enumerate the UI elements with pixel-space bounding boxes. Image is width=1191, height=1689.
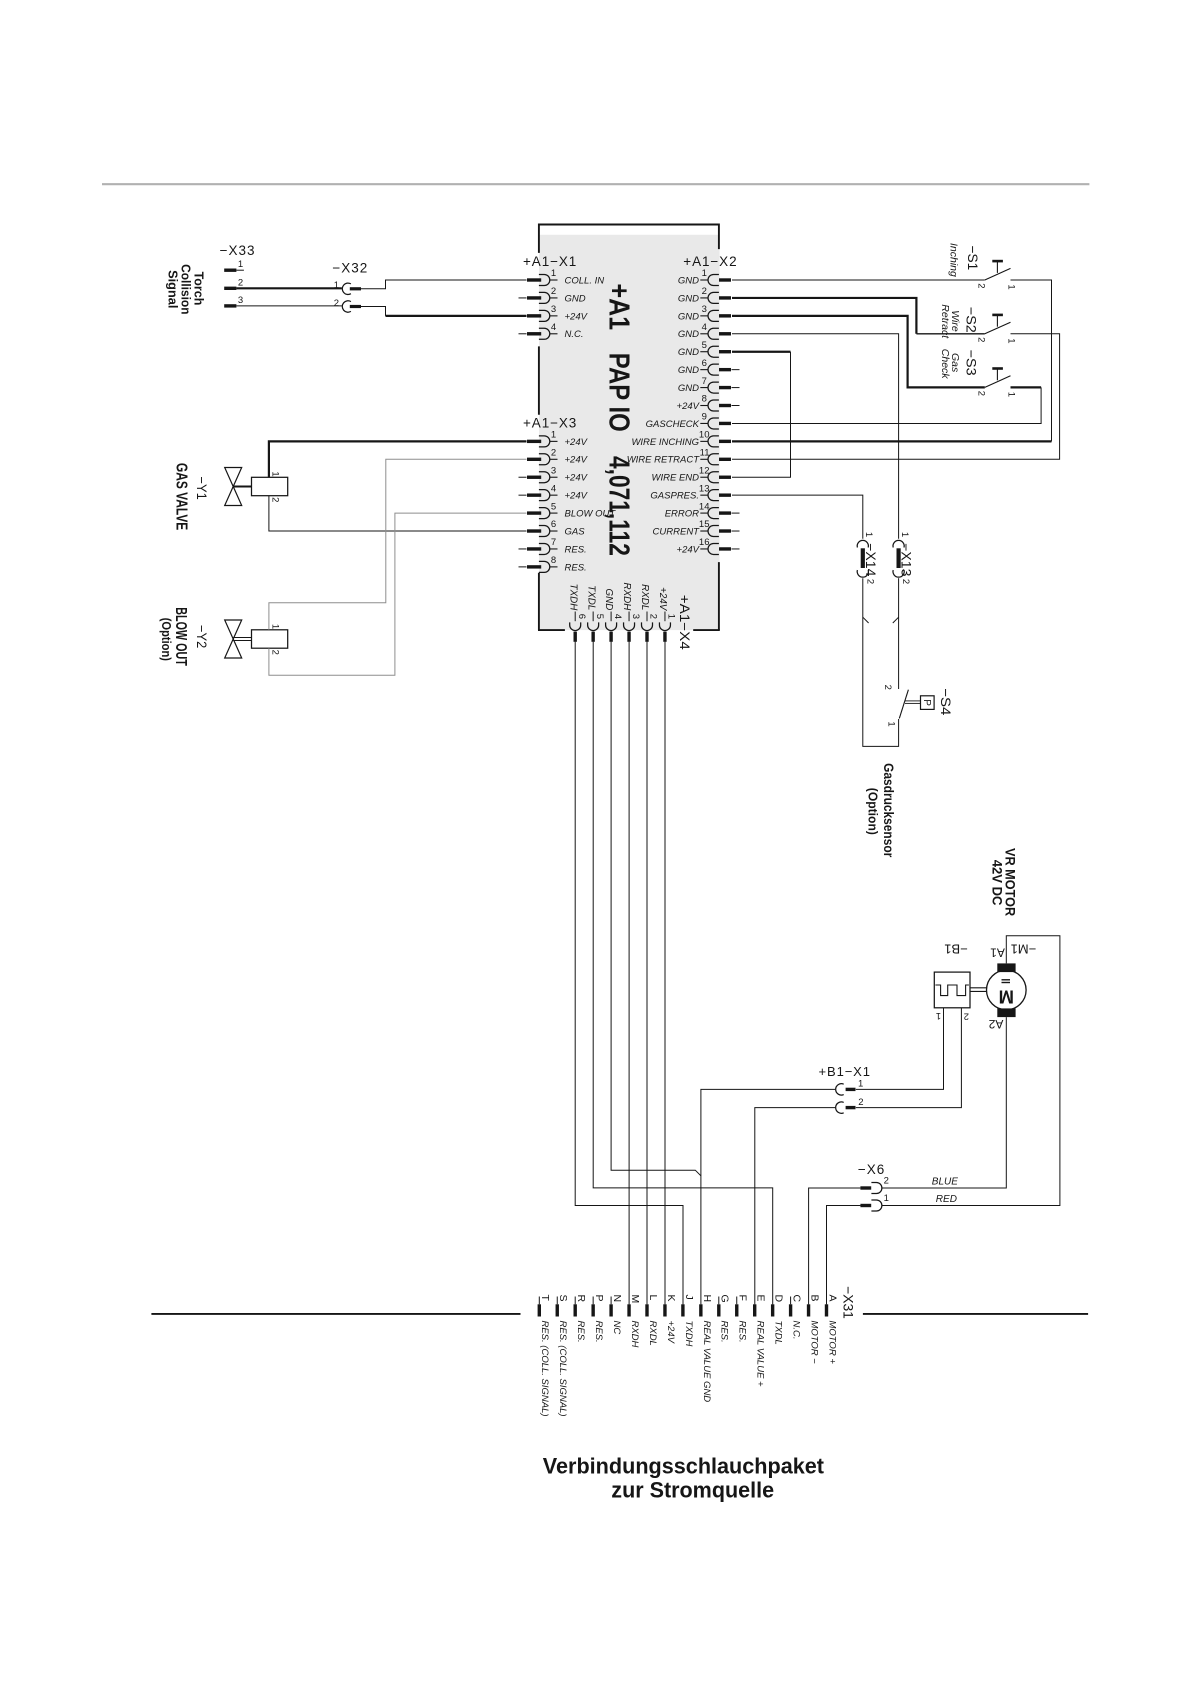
svg-text:NC: NC — [611, 1321, 622, 1335]
svg-text:2: 2 — [900, 579, 911, 584]
svg-text:N: N — [611, 1295, 623, 1303]
wire B1-2 down — [856, 1008, 962, 1108]
pin 16 (+24V) — [677, 537, 740, 555]
wire B1X1-2 to X31-E — [755, 1108, 835, 1305]
pin 5 (BLOW OUT) — [527, 501, 616, 519]
pin 3 (GND) — [678, 304, 731, 322]
pin 12 (WIRE END) — [652, 465, 732, 483]
top separator rule — [102, 183, 1089, 185]
PAP IO unit title "+A1 PAP IO 4,071,112" — [603, 284, 635, 556]
wire Y2-1 to X3-2 (gray) — [269, 459, 527, 630]
connector X31 pin C (N.C.) — [791, 1295, 803, 1340]
svg-text:F: F — [737, 1295, 749, 1301]
svg-text:2: 2 — [270, 650, 281, 655]
svg-text:GND: GND — [678, 293, 699, 304]
svg-text:3: 3 — [551, 465, 556, 476]
svg-text:M: M — [999, 987, 1014, 1008]
svg-text:A: A — [826, 1295, 838, 1302]
svg-text:RES.: RES. — [565, 544, 587, 555]
svg-text:2: 2 — [551, 286, 556, 297]
svg-text:GASPRES.: GASPRES. — [650, 491, 699, 502]
svg-text:+24V: +24V — [565, 491, 589, 502]
pin 2 (GND) — [519, 286, 586, 304]
svg-text:1: 1 — [899, 532, 910, 537]
pin 4 (GND) — [603, 589, 623, 642]
svg-text:6: 6 — [576, 614, 587, 619]
svg-text:R: R — [575, 1295, 587, 1303]
svg-text:GND: GND — [678, 329, 699, 340]
svg-text:−X31: −X31 — [841, 1286, 857, 1319]
switch S1 (Inching) — [975, 261, 1016, 290]
connector X31 pin P (RES.) — [593, 1295, 605, 1343]
svg-text:7: 7 — [702, 376, 707, 387]
svg-text:+A1−X2: +A1−X2 — [683, 254, 737, 269]
svg-text:3: 3 — [551, 304, 556, 315]
svg-text:MOTOR −: MOTOR − — [808, 1321, 819, 1365]
wire X4-1 +24V to X31-K — [664, 642, 666, 1305]
svg-text:Verbindungsschlauchpaket: Verbindungsschlauchpaket — [543, 1454, 825, 1479]
wire X6-2 to X31-B — [809, 1188, 861, 1304]
pin 1 — [224, 259, 244, 270]
svg-text:−X14: −X14 — [863, 543, 878, 577]
label "Gasdrucksensor (Option)" — [866, 763, 896, 858]
svg-text:2: 2 — [238, 277, 243, 288]
svg-text:BLOW OUT: BLOW OUT — [565, 508, 617, 519]
wire S3 to X2-9 (GASCHECK) — [1011, 386, 1042, 388]
svg-text:11: 11 — [700, 448, 710, 459]
svg-text:+24V: +24V — [565, 455, 589, 466]
svg-text:C: C — [791, 1295, 803, 1303]
svg-text:4: 4 — [551, 322, 556, 333]
motor M1 (VR motor) — [987, 963, 1027, 1017]
svg-text:GAS VALVE: GAS VALVE — [172, 463, 189, 530]
svg-text:Signal: Signal — [166, 270, 180, 308]
svg-text:1: 1 — [551, 430, 556, 441]
pin 3 — [224, 295, 243, 306]
svg-text:WIRE END: WIRE END — [652, 473, 700, 484]
svg-text:4: 4 — [612, 614, 623, 619]
svg-text:GND: GND — [678, 347, 699, 358]
connector -X32 pin 1 — [334, 280, 361, 295]
connector +A1-X2 — [627, 268, 740, 555]
svg-text:GND: GND — [678, 311, 699, 322]
wire Y1-1 to X3-1 — [269, 441, 527, 477]
svg-text:42V DC: 42V DC — [990, 860, 1006, 906]
wire X4-5 TXDL to X31-D — [593, 642, 773, 1305]
svg-text:−Y2: −Y2 — [194, 625, 209, 648]
pin 1 (COLL. IN) — [527, 268, 604, 286]
wire X4-3 RXDH to X31-M — [628, 642, 630, 1305]
pin 3 (+24V) — [519, 465, 589, 483]
tacho B1 — [934, 972, 986, 1008]
svg-text:6: 6 — [551, 519, 556, 530]
svg-text:+A1: +A1 — [603, 284, 635, 331]
svg-text:Gasdrucksensor: Gasdrucksensor — [881, 763, 896, 858]
svg-text:1: 1 — [1006, 392, 1017, 397]
connector +A1-X4 — [567, 583, 676, 642]
svg-text:GND: GND — [603, 589, 614, 611]
svg-text:RES.: RES. — [737, 1321, 748, 1343]
svg-text:A1: A1 — [990, 946, 1005, 960]
svg-text:GAS: GAS — [565, 526, 586, 537]
svg-text:ERROR: ERROR — [665, 508, 699, 519]
pin 2 (RXDL) — [639, 584, 659, 642]
svg-text:BLUE: BLUE — [932, 1176, 958, 1187]
svg-text:RED: RED — [936, 1194, 957, 1205]
svg-text:2: 2 — [964, 1011, 969, 1022]
svg-text:14: 14 — [699, 501, 710, 512]
wire X32-2 to X1-3 — [361, 307, 386, 316]
pin 10 (WIRE INCHING) — [631, 430, 731, 448]
pin 2 — [224, 277, 243, 288]
wire B1X1-1 to X31-H — [701, 1089, 835, 1304]
label "VR MOTOR 42V DC" — [990, 848, 1019, 916]
wire X13-2 down to S4 — [898, 578, 900, 689]
svg-text:8: 8 — [551, 555, 556, 566]
svg-text:3: 3 — [702, 304, 707, 315]
svg-text:1: 1 — [551, 268, 556, 279]
svg-text:+A1−X1: +A1−X1 — [523, 254, 577, 269]
svg-text:2: 2 — [270, 497, 281, 502]
wire X2-3 to S3 — [732, 316, 985, 388]
svg-text:Check: Check — [939, 349, 951, 380]
svg-text:1: 1 — [863, 532, 874, 537]
svg-text:N.C.: N.C. — [791, 1321, 802, 1340]
svg-text:2: 2 — [551, 448, 556, 459]
hose-package entry marks — [863, 617, 869, 623]
pin 5 (TXDL) — [585, 585, 605, 642]
svg-text:Inching: Inching — [947, 243, 959, 277]
svg-text:3: 3 — [238, 295, 243, 306]
wire X32-1 to X1-1 — [361, 280, 527, 289]
wire M1-A1 loop to X6-1 — [882, 936, 1060, 1206]
connector +B1-X1 pin 2 — [836, 1097, 864, 1114]
svg-text:GND: GND — [678, 383, 699, 394]
connector -X6 pin 2 — [860, 1175, 889, 1193]
connector -X6 pin 1 — [860, 1193, 889, 1211]
wire Y1-2 to X3-6 — [269, 496, 527, 531]
svg-text:Torch: Torch — [191, 272, 205, 306]
svg-text:WIRE INCHING: WIRE INCHING — [631, 437, 699, 448]
svg-text:A2: A2 — [988, 1017, 1003, 1031]
svg-text:RES. (COLL. SIGNAL): RES. (COLL. SIGNAL) — [557, 1321, 568, 1417]
pin 4 (N.C.) — [519, 322, 584, 340]
svg-text:+24V: +24V — [665, 1321, 676, 1345]
svg-text:−X6: −X6 — [858, 1162, 885, 1177]
svg-text:D: D — [773, 1295, 785, 1303]
label "BLOW OUT (Option)" — [159, 607, 189, 666]
pin 6 (GAS) — [527, 519, 585, 537]
pin 13 (GASPRES.) — [650, 483, 731, 501]
svg-text:+24V: +24V — [565, 437, 589, 448]
svg-text:TXDL: TXDL — [773, 1321, 784, 1345]
connector X31 pin S (RES. (COLL. SIGNAL)) — [557, 1295, 569, 1417]
switch S4 (pressure) — [882, 685, 934, 727]
valve Y1 (gas valve) — [225, 468, 288, 506]
svg-text:2: 2 — [702, 286, 707, 297]
switch S3 (Gas Check) — [975, 369, 1016, 398]
connector X31 pin T (RES. (COLL. SIGNAL)) — [539, 1295, 551, 1417]
svg-text:2: 2 — [858, 1097, 863, 1108]
wire Y2-2 to X3-5 (gray) — [269, 513, 527, 675]
pin 7 (RES.) — [519, 537, 587, 555]
pin 6 (TXDH) — [567, 584, 587, 642]
pin 5 (GND) — [678, 340, 731, 358]
svg-text:5: 5 — [551, 501, 556, 512]
svg-text:P: P — [593, 1295, 605, 1302]
connector X31 pin L (RXDL) — [647, 1295, 659, 1346]
svg-text:TXDH: TXDH — [567, 584, 578, 612]
svg-text:1: 1 — [884, 1193, 889, 1204]
svg-text:RXDL: RXDL — [639, 584, 650, 610]
svg-text:RES.: RES. — [565, 562, 587, 573]
svg-text:10: 10 — [699, 430, 710, 441]
wire X33-2 to X32-1 — [236, 287, 342, 289]
svg-text:−S2: −S2 — [963, 307, 979, 333]
svg-text:N.C.: N.C. — [565, 329, 584, 340]
svg-text:1: 1 — [1006, 338, 1017, 343]
svg-text:2: 2 — [864, 579, 875, 584]
svg-text:+24V: +24V — [677, 401, 701, 412]
svg-text:RXDL: RXDL — [647, 1321, 658, 1346]
wire M1-A2 to X6-2 — [882, 1017, 1006, 1188]
svg-text:REAL VALUE GND: REAL VALUE GND — [701, 1321, 712, 1403]
svg-text:B: B — [808, 1295, 820, 1302]
connector +A1-X3 — [519, 430, 617, 574]
valve Y2 (blow out) — [225, 620, 288, 658]
label "Torch Collision Signal" — [166, 264, 206, 314]
svg-text:T: T — [539, 1295, 551, 1302]
pin 8 (+24V) — [677, 394, 740, 412]
pin 4 (GND) — [678, 322, 731, 340]
connector X31 pin B (MOTOR −) — [808, 1295, 820, 1365]
svg-text:16: 16 — [699, 537, 710, 548]
svg-text:GND: GND — [678, 275, 699, 286]
svg-text:RES.: RES. — [719, 1321, 730, 1343]
svg-text:2: 2 — [334, 298, 339, 309]
label Gas Check — [939, 349, 961, 380]
svg-text:2: 2 — [884, 1175, 889, 1186]
svg-text:(Option): (Option) — [866, 788, 881, 835]
connector X31 pin F (RES.) — [737, 1295, 749, 1343]
connector +B1-X1 pin 1 — [836, 1079, 864, 1096]
svg-text:RES.: RES. — [575, 1321, 586, 1343]
svg-text:+24V: +24V — [677, 544, 701, 555]
pin 3 (+24V) — [527, 304, 589, 322]
svg-text:4: 4 — [702, 322, 707, 333]
svg-text:15: 15 — [699, 519, 710, 530]
wire S2 to X2-11 (WIRE RETRACT) — [732, 334, 1060, 460]
svg-text:−B1: −B1 — [944, 941, 968, 956]
connector X31 pin M (RXDH) — [629, 1295, 641, 1348]
connector -X32 pin 2 — [334, 298, 361, 312]
svg-text:5: 5 — [594, 614, 605, 619]
svg-text:−S1: −S1 — [965, 246, 981, 271]
svg-text:2: 2 — [648, 614, 659, 619]
svg-text:GND: GND — [678, 365, 699, 376]
svg-text:2: 2 — [882, 685, 893, 690]
pin 2 (+24V) — [527, 448, 589, 466]
svg-text:−X33: −X33 — [220, 243, 256, 258]
svg-text:+B1−X1: +B1−X1 — [819, 1064, 871, 1079]
boundary line (hose package, left) — [151, 1313, 520, 1315]
connector X31 pin G (RES.) — [719, 1295, 731, 1343]
svg-text:G: G — [719, 1295, 731, 1303]
svg-text:2: 2 — [975, 391, 986, 396]
svg-text:WIRE RETRACT: WIRE RETRACT — [627, 455, 701, 466]
pin 3 (RXDH) — [621, 583, 641, 642]
caption "Verbindungsschlauchpaket zur Stromquelle" — [543, 1454, 825, 1503]
svg-text:1: 1 — [885, 721, 896, 726]
svg-text:1: 1 — [936, 1010, 941, 1021]
svg-text:6: 6 — [702, 358, 707, 369]
boundary line (hose package, right) — [863, 1313, 1088, 1315]
wire X2-5 to X2-12 (GND to WIRE END jumper) — [732, 351, 791, 353]
svg-text:RES. (COLL. SIGNAL): RES. (COLL. SIGNAL) — [539, 1321, 550, 1417]
wire X33-3 to X32-2 — [236, 305, 342, 307]
pin 6 (GND) — [678, 358, 740, 376]
svg-text:+24V: +24V — [657, 587, 668, 612]
svg-text:4,071,112: 4,071,112 — [603, 456, 635, 556]
connector X31 pin K (+24V) — [665, 1295, 677, 1345]
pin 1 (+24V) — [657, 587, 677, 642]
svg-text:(Option): (Option) — [159, 618, 174, 661]
wire X2-13 to X14-1 — [732, 495, 863, 539]
svg-text:4: 4 — [551, 483, 556, 494]
connector X31 pin E (REAL VALUE +) — [755, 1295, 767, 1388]
svg-text:PAP IO: PAP IO — [603, 353, 635, 432]
svg-text:1: 1 — [270, 471, 281, 476]
svg-text:−M1: −M1 — [1011, 941, 1037, 956]
wire X2-1 to S1 — [732, 279, 985, 281]
svg-text:8: 8 — [702, 394, 707, 405]
svg-text:13: 13 — [699, 483, 710, 494]
pin 1 (+24V) — [527, 430, 589, 448]
svg-text:MOTOR +: MOTOR + — [826, 1321, 837, 1365]
svg-text:2: 2 — [975, 337, 986, 342]
svg-text:RXDH: RXDH — [629, 1321, 640, 1348]
connector -X33 — [224, 259, 244, 306]
connector X14 — [857, 532, 878, 584]
connector X31 pin N (NC) — [611, 1295, 623, 1335]
svg-text:1: 1 — [666, 614, 677, 619]
svg-text:zur Stromquelle: zur Stromquelle — [611, 1478, 774, 1503]
svg-text:1: 1 — [270, 624, 281, 629]
svg-text:M: M — [629, 1295, 641, 1304]
svg-text:1: 1 — [702, 268, 707, 279]
svg-text:P: P — [921, 699, 932, 706]
wire X2-4 to X13-1 — [732, 334, 899, 539]
PAP IO unit A1 body — [538, 225, 720, 631]
pin 14 (ERROR) — [665, 501, 740, 519]
svg-text:1: 1 — [858, 1079, 863, 1090]
pin 2 (GND) — [678, 286, 731, 304]
svg-text:J: J — [683, 1295, 695, 1300]
svg-text:7: 7 — [551, 537, 556, 548]
wire B1-1 down — [856, 1008, 944, 1090]
svg-text:TXDH: TXDH — [683, 1321, 694, 1347]
wire X14-2 down to S4 loop — [863, 578, 899, 746]
svg-text:−Y1: −Y1 — [194, 477, 209, 500]
svg-text:−X32: −X32 — [332, 260, 368, 275]
pin 8 (RES.) — [519, 555, 587, 573]
wire X4-2 RXDL to X31-L — [646, 642, 648, 1305]
label Wire Retract — [939, 304, 961, 339]
pin 4 (+24V) — [519, 483, 589, 501]
wire X4-6 TXDH to X31-J — [575, 642, 683, 1305]
connector X31 pin R (RES.) — [575, 1295, 587, 1343]
svg-text:+24V: +24V — [565, 311, 589, 322]
pin 1 (GND) — [678, 268, 731, 286]
wire X2-2 to S2 — [732, 298, 916, 334]
pin 11 (WIRE RETRACT) — [627, 448, 731, 466]
svg-text:3: 3 — [630, 614, 641, 619]
svg-text:GND: GND — [565, 293, 586, 304]
svg-text:+A1−X3: +A1−X3 — [523, 416, 577, 431]
connector X31 pin H (REAL VALUE GND) — [701, 1295, 713, 1403]
svg-text:+A1−X4: +A1−X4 — [677, 595, 692, 651]
svg-text:−S3: −S3 — [963, 350, 979, 376]
pin 7 (GND) — [678, 376, 740, 394]
connector X31 pin J (TXDH) — [683, 1295, 695, 1347]
svg-text:K: K — [665, 1295, 677, 1302]
connector X31 pin D (TXDL) — [773, 1295, 785, 1345]
svg-text:12: 12 — [699, 465, 710, 476]
svg-text:9: 9 — [702, 412, 707, 423]
switch S2 (Wire Retract) — [975, 315, 1016, 344]
connector X13 — [893, 532, 914, 584]
svg-text:−X13: −X13 — [899, 543, 914, 576]
svg-text:CURRENT: CURRENT — [653, 526, 701, 537]
pin 15 (CURRENT) — [653, 519, 740, 537]
pin 9 (GASCHECK) — [646, 412, 731, 430]
svg-text:RES.: RES. — [593, 1321, 604, 1343]
svg-text:1: 1 — [1006, 284, 1017, 289]
svg-text:REAL VALUE +: REAL VALUE + — [755, 1321, 766, 1388]
svg-text:E: E — [755, 1295, 767, 1302]
wire S1 to X2-10 (WIRE INCHING) — [1011, 280, 1052, 441]
svg-text:+24V: +24V — [565, 473, 589, 484]
svg-text:RXDH: RXDH — [621, 583, 632, 612]
connector X31 pin A (MOTOR +) — [826, 1295, 838, 1365]
svg-text:L: L — [647, 1295, 659, 1301]
svg-text:5: 5 — [702, 340, 707, 351]
svg-text:GASCHECK: GASCHECK — [646, 419, 700, 430]
svg-text:S: S — [557, 1295, 569, 1302]
svg-text:H: H — [701, 1295, 713, 1303]
wire X6-1 to X31-A — [827, 1206, 861, 1305]
connector +A1-X1 — [519, 268, 605, 340]
svg-text:TXDL: TXDL — [585, 585, 596, 610]
svg-text:COLL. IN: COLL. IN — [565, 275, 605, 286]
wire X4-4 GND to X31-H join — [611, 642, 701, 1176]
svg-text:1: 1 — [238, 259, 243, 270]
svg-text:2: 2 — [975, 283, 986, 288]
svg-text:−S4: −S4 — [938, 688, 954, 715]
